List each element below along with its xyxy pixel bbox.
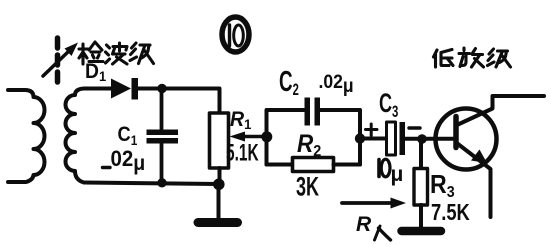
stage label fang (amplification) <box>459 48 484 67</box>
stage label bo (wave) <box>106 43 128 64</box>
value 3K of R2 <box>296 171 320 201</box>
potentiometer wiper arrow of R1 <box>230 132 267 142</box>
wire C3 to base <box>405 137 453 141</box>
wire to C3 <box>360 137 385 141</box>
value .02u of C2 <box>319 70 354 96</box>
wire right branch of C2 R2 loop <box>320 110 360 165</box>
polarity plus sign of C3 <box>366 124 378 136</box>
junction node C2 R2 output <box>355 133 365 143</box>
label C2 <box>279 66 299 100</box>
junction node top of C1 <box>157 84 166 93</box>
value 5.1K of R1 <box>226 139 259 167</box>
junction node R1 bottom <box>213 179 225 191</box>
junction node base R3 <box>417 134 427 144</box>
junction node R1 wiper <box>261 131 272 142</box>
resistor R1 body <box>210 113 229 184</box>
label C3 <box>379 87 398 121</box>
value .02u of C1 <box>103 146 146 175</box>
ground symbol below R1 <box>198 184 238 223</box>
label R3 <box>430 171 455 201</box>
label C1 <box>118 123 138 149</box>
figure number circle 10 <box>222 17 249 52</box>
svg-text:5.1K: 5.1K <box>226 139 259 167</box>
svg-text:7.5K: 7.5K <box>431 200 470 225</box>
svg-text:μ: μ <box>391 163 404 186</box>
transformer T1 primary winding <box>8 90 45 182</box>
svg-text:3K: 3K <box>296 171 320 201</box>
stage label jian (detector) <box>79 42 103 64</box>
ground symbol below R3 <box>402 227 442 236</box>
wire left branch of C2 R2 loop <box>267 110 305 165</box>
stage label ji (stage) <box>130 43 154 64</box>
transistor Q1 circle <box>436 109 497 170</box>
label R2 <box>297 130 321 160</box>
label R-in <box>356 213 391 240</box>
resistor R3 body <box>414 139 428 227</box>
polarity minus sign of C3 <box>409 126 420 129</box>
transistor Q1 collector <box>458 96 544 125</box>
resistor R2 body <box>267 158 361 172</box>
capacitor C3 electrolytic <box>387 122 406 155</box>
input resistance arrow R-in <box>342 198 406 209</box>
stage label ji2 (stage) <box>488 49 511 67</box>
svg-text:R: R <box>356 213 372 236</box>
stage label di (low) <box>434 50 454 68</box>
diode D1 <box>111 78 138 100</box>
value 10u of C3 <box>379 159 403 186</box>
transformer T1 secondary winding <box>66 89 112 183</box>
wire secondary top to R1 corner <box>137 89 220 114</box>
stage pointer arrow <box>43 43 78 77</box>
junction node bottom of C1 <box>157 178 166 187</box>
label R1 <box>230 108 252 132</box>
capacitor C1 <box>147 89 179 183</box>
capacitor C2 <box>305 98 321 126</box>
stage boundary dashed line <box>55 38 61 85</box>
transistor Q1 emitter with arrow <box>458 144 491 217</box>
bottom wire ground bus <box>84 183 219 185</box>
transistor Q1 base bar <box>453 117 459 148</box>
label D1 <box>85 60 107 84</box>
value 7.5K of R3 <box>431 200 470 225</box>
